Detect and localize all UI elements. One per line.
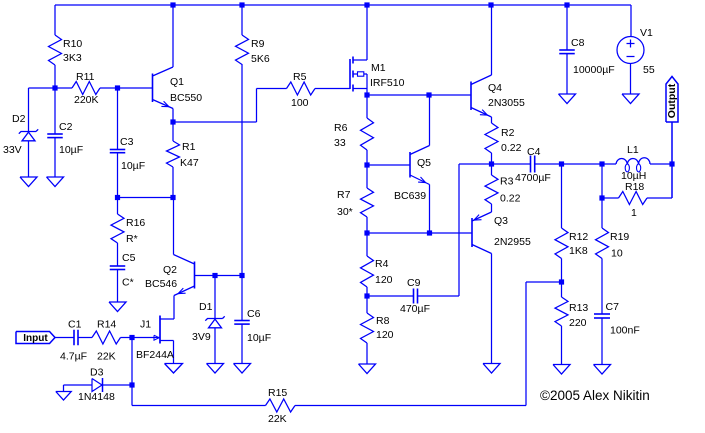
svg-text:D2: D2 — [12, 113, 26, 125]
svg-text:22K: 22K — [268, 413, 287, 425]
svg-text:Q2: Q2 — [163, 264, 177, 276]
svg-text:R2: R2 — [501, 127, 515, 139]
svg-text:10µF: 10µF — [247, 332, 271, 344]
svg-text:C7: C7 — [606, 301, 620, 313]
svg-text:Q4: Q4 — [488, 82, 502, 94]
svg-text:Q1: Q1 — [170, 76, 184, 88]
svg-text:33: 33 — [334, 137, 346, 149]
svg-text:C4: C4 — [527, 146, 541, 158]
svg-text:1K8: 1K8 — [569, 245, 588, 257]
svg-text:120: 120 — [375, 274, 393, 286]
svg-text:M1: M1 — [371, 62, 386, 74]
svg-text:C9: C9 — [407, 277, 421, 289]
svg-text:470µF: 470µF — [400, 303, 430, 315]
svg-text:R9: R9 — [251, 38, 265, 50]
svg-text:30*: 30* — [337, 206, 353, 218]
svg-text:R1: R1 — [182, 141, 196, 153]
svg-text:220K: 220K — [74, 94, 99, 106]
svg-text:BC550: BC550 — [170, 92, 202, 104]
svg-text:R5: R5 — [293, 71, 307, 83]
svg-text:10000µF: 10000µF — [573, 64, 615, 76]
svg-text:R10: R10 — [63, 38, 82, 50]
svg-text:R19: R19 — [610, 231, 629, 243]
svg-text:4.7µF: 4.7µF — [60, 351, 87, 363]
svg-text:R4: R4 — [375, 258, 389, 270]
svg-text:120: 120 — [376, 329, 394, 341]
svg-text:3K3: 3K3 — [63, 52, 82, 64]
svg-text:22K: 22K — [97, 351, 116, 363]
svg-text:10µF: 10µF — [59, 144, 83, 156]
svg-text:R18: R18 — [625, 181, 644, 193]
svg-text:0.22: 0.22 — [500, 193, 521, 205]
svg-text:R*: R* — [126, 233, 138, 245]
svg-text:5K6: 5K6 — [251, 53, 270, 65]
svg-text:C5: C5 — [122, 252, 136, 264]
svg-text:D1: D1 — [199, 301, 213, 313]
svg-text:Q5: Q5 — [417, 157, 431, 169]
svg-text:Output: Output — [666, 83, 678, 118]
svg-text:1: 1 — [631, 207, 637, 219]
svg-text:Q3: Q3 — [494, 215, 508, 227]
svg-text:BC639: BC639 — [394, 190, 426, 202]
svg-text:100nF: 100nF — [610, 325, 640, 337]
svg-text:C6: C6 — [247, 308, 261, 320]
svg-text:220: 220 — [569, 317, 587, 329]
svg-text:55: 55 — [643, 64, 655, 76]
svg-text:3V9: 3V9 — [192, 331, 211, 343]
svg-text:Input: Input — [23, 333, 48, 344]
svg-text:10µF: 10µF — [121, 160, 145, 172]
svg-text:R16: R16 — [126, 217, 145, 229]
svg-text:IRF510: IRF510 — [370, 77, 405, 89]
svg-text:2N2955: 2N2955 — [494, 236, 531, 248]
svg-text:R7: R7 — [337, 189, 351, 201]
svg-text:R15: R15 — [268, 387, 287, 399]
svg-text:33V: 33V — [3, 144, 22, 156]
svg-text:R8: R8 — [376, 315, 390, 327]
svg-text:©2005 Alex Nikitin: ©2005 Alex Nikitin — [540, 388, 650, 403]
svg-text:J1: J1 — [140, 319, 151, 331]
svg-text:4700µF: 4700µF — [515, 172, 551, 184]
svg-text:R3: R3 — [500, 176, 514, 188]
svg-text:L1: L1 — [627, 144, 639, 156]
svg-text:BC546: BC546 — [145, 278, 177, 290]
svg-text:C8: C8 — [571, 37, 585, 49]
svg-text:R6: R6 — [334, 122, 348, 134]
svg-text:2N3055: 2N3055 — [488, 97, 525, 109]
svg-text:C2: C2 — [59, 121, 73, 133]
svg-text:100: 100 — [291, 97, 309, 109]
svg-text:R11: R11 — [76, 71, 95, 83]
svg-text:R12: R12 — [569, 231, 588, 243]
svg-text:1N4148: 1N4148 — [78, 391, 115, 403]
svg-text:C3: C3 — [120, 136, 134, 148]
svg-text:R14: R14 — [97, 319, 116, 331]
svg-text:BF244A: BF244A — [136, 349, 174, 361]
svg-text:C1: C1 — [68, 319, 82, 331]
svg-text:D3: D3 — [90, 367, 104, 379]
svg-text:R13: R13 — [569, 302, 588, 314]
svg-text:0.22: 0.22 — [501, 142, 522, 154]
svg-text:C*: C* — [122, 277, 134, 289]
svg-text:V1: V1 — [640, 27, 653, 39]
svg-text:10: 10 — [611, 248, 623, 260]
svg-text:K47: K47 — [180, 157, 199, 169]
